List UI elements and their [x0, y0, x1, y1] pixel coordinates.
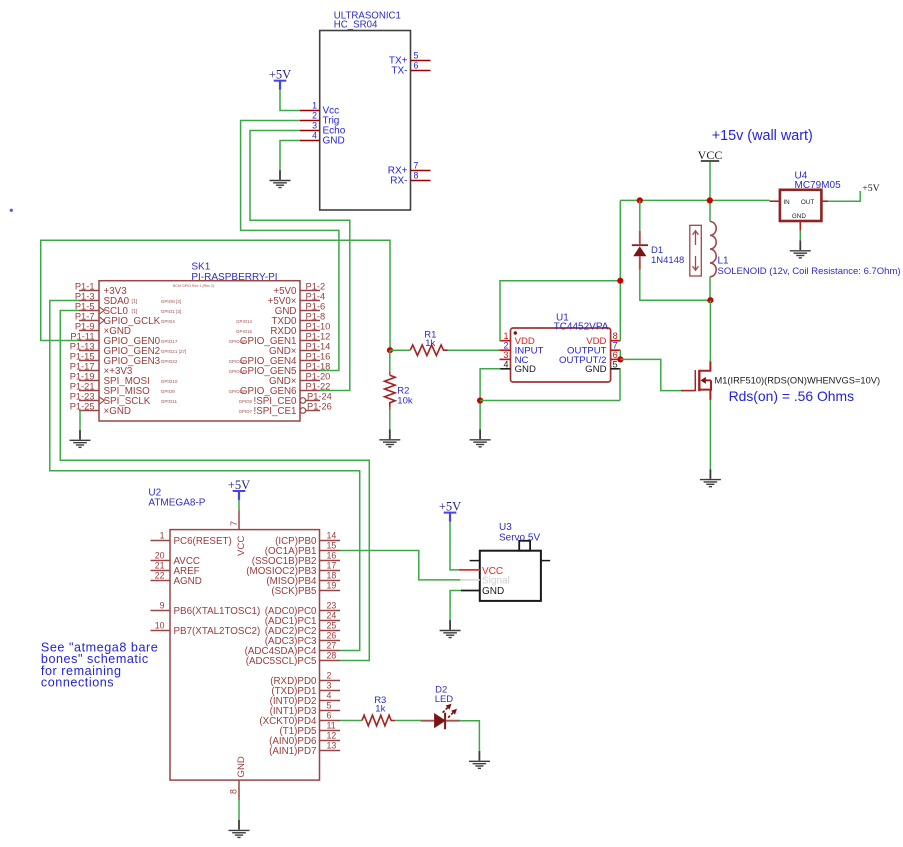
wire GND pin 4 down	[280, 141, 300, 171]
wire coil bottom to junction	[709, 277, 711, 301]
svg-text:P1-9: P1-9	[75, 321, 95, 331]
svg-text:U3: U3	[499, 522, 512, 533]
inductor L1 coil	[710, 222, 716, 277]
wire D1 anode to rail bottom	[640, 270, 711, 300]
U2 pin 15 (OC1A)PB1	[265, 541, 340, 557]
svg-text:GND: GND	[515, 364, 536, 375]
SK1 pin P1-13 GPIO_GEN2	[70, 341, 187, 357]
svg-text:5: 5	[327, 701, 332, 711]
svg-text:27: 27	[327, 641, 337, 651]
svg-text:GND: GND	[236, 756, 247, 777]
svg-text:ATMEGA8-P: ATMEGA8-P	[148, 498, 205, 509]
ground (U4)	[790, 240, 811, 257]
ground (servo)	[440, 620, 461, 637]
U2 pin 5 (INT1)PD3	[270, 701, 340, 717]
svg-text:1: 1	[503, 331, 508, 341]
svg-text:28: 28	[327, 651, 337, 661]
svg-text:P1-12: P1-12	[306, 331, 331, 341]
svg-text:8: 8	[229, 789, 239, 794]
microcontroller U2 ATMEGA8-P box	[170, 530, 320, 781]
svg-text:25: 25	[327, 621, 337, 631]
svg-text:1k: 1k	[425, 338, 435, 349]
SK1 pin P1-3 SDA0	[75, 291, 181, 307]
svg-text:(SCK)PB5: (SCK)PB5	[271, 586, 317, 597]
SK1 pin P1-6 GND	[275, 301, 325, 317]
svg-text:GPIO14: GPIO14	[236, 319, 252, 324]
U2 pin 24 (ADC1)PC1	[265, 611, 340, 627]
svg-text:GPIO8: GPIO8	[239, 399, 253, 404]
svg-text:8: 8	[414, 171, 419, 181]
svg-text:Rds(on) = .56 Ohms: Rds(on) = .56 Ohms	[729, 388, 855, 404]
servo pin Signal	[460, 579, 480, 581]
svg-text:P1-22: P1-22	[306, 381, 331, 391]
svg-text:23: 23	[327, 601, 337, 611]
U2 pin 20 AVCC	[151, 551, 201, 567]
svg-text:4: 4	[327, 691, 332, 701]
svg-text:6: 6	[414, 61, 419, 71]
SK1 pin P1-16 GPIO_GEN4	[229, 351, 331, 367]
+5V power symbol (servo)	[439, 499, 461, 521]
ULTRASONIC1 pin 3 Echo	[300, 130, 320, 132]
ULTRASONIC1 pin 8 RX-	[411, 180, 431, 182]
solenoid plunger arrow box	[690, 225, 702, 276]
svg-text:GPIO17: GPIO17	[161, 339, 178, 344]
ULTRASONIC1 pin 6 TX-	[411, 70, 431, 72]
svg-text:GPIO7: GPIO7	[239, 409, 253, 414]
svg-text:SOLENOID (12v, Coil Resistance: SOLENOID (12v, Coil Resistance: 6.7Ohm)	[718, 266, 901, 277]
svg-text:7: 7	[229, 521, 239, 526]
svg-text:6: 6	[327, 711, 332, 721]
wire Echo pin 3 to SK1 P1-22 GPIO_GEN6	[250, 131, 350, 391]
svg-text:9: 9	[160, 601, 165, 611]
junction rail bottom	[707, 297, 713, 303]
U2 pin 21 AREF	[151, 561, 200, 577]
svg-text:P1-14: P1-14	[306, 341, 331, 351]
servo right whisker	[541, 560, 550, 562]
SK1 pin P1-2 +5V0	[273, 281, 325, 297]
svg-text:17: 17	[327, 561, 337, 571]
svg-text:22: 22	[155, 571, 165, 581]
resistor R2 10k	[389, 350, 391, 371]
svg-text:GPIO1 [3]: GPIO1 [3]	[161, 309, 181, 314]
svg-text:1: 1	[312, 101, 317, 111]
svg-text:P1-8: P1-8	[306, 311, 326, 321]
svg-text:P1-18: P1-18	[306, 361, 331, 371]
svg-text:P1-16: P1-16	[306, 351, 331, 361]
U2 pin 16 (SSOC1B)PB2	[252, 551, 340, 567]
svg-text:26: 26	[327, 631, 337, 641]
wire GPIO_GEN0 P1-11 to R1/R2 node	[41, 240, 390, 350]
U2 pin 27 (ADC4SDA)PC4	[245, 641, 340, 657]
SK1 pin P1-1 +3V3	[75, 281, 127, 297]
svg-text:21: 21	[155, 561, 165, 571]
SK1 pin P1-5 SCL0	[75, 301, 181, 317]
wire rail to M1 drain	[709, 300, 711, 361]
svg-text:PB6(XTAL1TOSC1): PB6(XTAL1TOSC1)	[174, 606, 261, 617]
SK1 pin P1-7 GPIO_GCLK	[75, 311, 175, 327]
svg-text:RX-: RX-	[390, 176, 407, 187]
U4 pin OUT	[821, 200, 828, 202]
U1 pin 1 VDD (left)	[500, 340, 511, 342]
ULTRASONIC1 pin 1 Vcc	[300, 110, 320, 112]
svg-text:8: 8	[613, 331, 618, 341]
svg-text:GPIO25: GPIO25	[229, 389, 245, 394]
U1 pin 4 GND (left)	[500, 368, 511, 370]
svg-text:P1-24: P1-24	[307, 391, 332, 401]
U1 pin 5 GND (right)	[611, 368, 621, 370]
svg-text:TX-: TX-	[391, 66, 407, 77]
U2 pin 9 PB6(XTAL1TOSC1)	[151, 601, 261, 617]
junction OUTPUT pins	[617, 356, 623, 362]
U2 pin 23 (ADC0)PC0	[265, 601, 340, 617]
svg-text:1: 1	[160, 531, 165, 541]
svg-text:+15v (wall wart): +15v (wall wart)	[712, 128, 813, 144]
svg-text:11: 11	[327, 721, 336, 731]
svg-text:19: 19	[327, 581, 337, 591]
wire U1 VDD pins to +15V rail	[500, 200, 620, 340]
ULTRASONIC1 pin 7 RX+	[411, 170, 431, 172]
ground (R2)	[379, 429, 400, 446]
svg-text:13: 13	[327, 741, 337, 751]
down arrow	[693, 256, 699, 270]
wire VCC rail down to coil	[709, 162, 711, 222]
U2 pin 19 (SCK)PB5	[271, 581, 340, 597]
svg-text:GPIO11: GPIO11	[161, 399, 178, 404]
wire SDA0 P1-3 to ATMEGA PC4	[50, 301, 360, 651]
U2 pin 28 (ADC5SCL)PC5	[246, 651, 340, 667]
svg-text:GND: GND	[792, 213, 806, 220]
SK1 pin P1-8 TXD0	[236, 311, 325, 327]
svg-text:(AIN1)PD7: (AIN1)PD7	[269, 746, 316, 757]
wire U1 pin7 to pin6 jog	[619, 350, 621, 359]
SK1 pin P1-12 GPIO_GEN1	[229, 331, 331, 347]
ground rail wire to pin5	[480, 369, 620, 401]
driver IC U1 TC4452VPA box	[511, 328, 611, 382]
svg-text:TC4452VPA: TC4452VPA	[554, 322, 609, 333]
svg-text:GPIO9: GPIO9	[161, 389, 175, 394]
U1 pin 3 NC (left)	[500, 358, 511, 360]
wire PD4 to R3	[340, 720, 362, 722]
svg-text:GPIO15: GPIO15	[236, 329, 252, 334]
svg-text:1N4148: 1N4148	[651, 255, 684, 266]
U2 pin 7 VCC	[238, 500, 240, 511]
svg-text:4: 4	[503, 359, 508, 369]
SK1 pin P1-25 ×GND	[70, 401, 131, 417]
svg-text:GPIO8 [2]: GPIO8 [2]	[161, 299, 181, 304]
U2 pin 14 (ICP)PB0	[275, 531, 340, 547]
wire R1 to U1 INPUT	[390, 349, 500, 351]
svg-text:SK1: SK1	[191, 261, 210, 272]
svg-text:GPIO4: GPIO4	[161, 319, 175, 324]
svg-text:GPIO18: GPIO18	[229, 339, 245, 344]
U2 pin 17 (MOSIOC2)PB3	[246, 561, 340, 577]
svg-text:!SPI_CE1: !SPI_CE1	[253, 406, 296, 417]
svg-text:P1-13: P1-13	[70, 341, 95, 351]
svg-text:P1-2: P1-2	[306, 281, 326, 291]
svg-text:20: 20	[155, 551, 165, 561]
up arrow	[693, 231, 699, 245]
svg-text:GND: GND	[482, 586, 504, 597]
wire U1 pin4 GND to ground rail	[480, 369, 500, 430]
wire top rail to U4 IN	[620, 199, 769, 201]
ground (U1)	[470, 429, 491, 446]
svg-text:GPIO24: GPIO24	[229, 369, 245, 374]
wire R3 to D2	[395, 720, 421, 722]
svg-text:Servo 5V: Servo 5V	[499, 532, 540, 543]
svg-text:P1-4: P1-4	[306, 291, 326, 301]
svg-text:P1-15: P1-15	[70, 351, 95, 361]
svg-text:P1-1: P1-1	[75, 281, 95, 291]
servo pin VCC	[459, 569, 480, 571]
svg-text:5: 5	[613, 359, 618, 369]
svg-text:10: 10	[155, 621, 165, 631]
ULTRASONIC1 pin 5 TX+	[411, 60, 431, 62]
SK1 pin P1-4 +5V0×	[268, 291, 326, 307]
U2 pin 2 (RXD)PD0	[270, 671, 340, 687]
svg-text:(ADC5SCL)PC5: (ADC5SCL)PC5	[246, 656, 317, 667]
ground (SK1)	[70, 430, 91, 447]
servo mount tab	[519, 541, 530, 551]
svg-text:HC_SR04: HC_SR04	[334, 20, 378, 31]
U1 pin-1 marker dot	[514, 331, 517, 334]
svg-text:+5V: +5V	[439, 499, 461, 513]
svg-text:2: 2	[327, 671, 332, 681]
U2 pin 3 (TXD)PD1	[271, 681, 340, 697]
svg-text:GPIO22: GPIO22	[161, 359, 178, 364]
U1 pin 2 INPUT (left)	[500, 349, 511, 351]
svg-text:12: 12	[327, 731, 337, 741]
ULTRASONIC1 pin 4 GND	[300, 140, 320, 142]
SK1 pin P1-21 SPI_MISO	[70, 381, 176, 397]
svg-text:OUT: OUT	[801, 199, 814, 206]
svg-text:10k: 10k	[397, 396, 413, 407]
U1 pin 8 VDD (right)	[611, 340, 621, 342]
resistor R3 1k	[362, 715, 395, 726]
svg-text:BCM GPIO Rev 1 (Rev 2): BCM GPIO Rev 1 (Rev 2)	[173, 284, 214, 288]
SK1 pin P1-11 GPIO_GEN0	[70, 331, 177, 347]
svg-text:+5V: +5V	[269, 68, 291, 82]
ULTRASONIC1 pin 2 Trig	[300, 120, 320, 122]
svg-text:PI-RASPBERRY-PI: PI-RASPBERRY-PI	[191, 272, 277, 283]
raspberry-pi header SK1 box	[99, 281, 300, 421]
wire SK1 P1-25 GND down	[79, 411, 81, 430]
svg-text:P1-19: P1-19	[70, 371, 95, 381]
ground (ultrasonic GND)	[270, 170, 291, 187]
svg-text:AGND: AGND	[174, 576, 202, 587]
wire U4 GND down	[799, 231, 801, 241]
SK1 pin P1-14 GND×	[269, 341, 330, 357]
svg-text:3: 3	[312, 121, 317, 131]
svg-text:LED: LED	[435, 694, 454, 705]
svg-text:2: 2	[312, 111, 317, 121]
svg-text:P1-17: P1-17	[70, 361, 95, 371]
wire U1 OUTPUT to M1 gate	[620, 359, 681, 390]
wire M1 source to ground	[709, 400, 711, 469]
junction D1 top	[637, 197, 643, 203]
LED emission arrows	[441, 702, 454, 715]
svg-text:P1-21: P1-21	[70, 381, 95, 391]
junction VCC rail	[707, 197, 713, 203]
wire U4 OUT to +5V	[828, 191, 860, 201]
svg-text:18: 18	[327, 571, 337, 581]
SK1 pin P1-22 GPIO_GEN6	[229, 381, 331, 397]
wire SCL0 P1-5 to ATMEGA PC5	[60, 311, 369, 661]
svg-text:+5V: +5V	[228, 478, 250, 492]
U2 pin 25 (ADC2)PC2	[265, 621, 340, 637]
svg-text:MC79M05: MC79M05	[795, 180, 842, 191]
svg-text:P1-23: P1-23	[70, 391, 95, 401]
SK1 pin P1-23 SPI_SCLK	[70, 391, 178, 407]
svg-text:24: 24	[327, 611, 337, 621]
svg-text:+5V: +5V	[862, 183, 880, 194]
svg-text:14: 14	[327, 531, 337, 541]
wire R2 to ground	[389, 411, 391, 430]
svg-text:16: 16	[327, 551, 337, 561]
svg-text:M1(IRF510)(RDS(ON)WHENVGS=10V): M1(IRF510)(RDS(ON)WHENVGS=10V)	[715, 375, 881, 385]
SK1 pin P1-10 RXD0	[236, 321, 330, 337]
svg-text:[1]: [1]	[132, 309, 138, 315]
SK1 pin P1-20 GND×	[269, 371, 330, 387]
svg-text:5: 5	[414, 51, 419, 61]
U2 pin 18 (MISO)PB4	[266, 571, 340, 587]
U2 pin 6 (XCKT0)PD4	[259, 711, 340, 727]
junction node R1/R2/GEN0	[387, 347, 393, 353]
svg-text:15: 15	[327, 541, 337, 551]
U2 pin 4 (INT0)PD2	[270, 691, 340, 707]
wire PB1 to servo Signal	[340, 551, 460, 580]
svg-text:GND: GND	[585, 364, 606, 375]
junction GND rail	[477, 397, 483, 403]
svg-text:VCC: VCC	[236, 536, 247, 556]
U2 pin 1 PC6(RESET)	[151, 531, 232, 547]
VCC power symbol	[698, 148, 723, 162]
svg-text:P1-25: P1-25	[70, 401, 95, 411]
ultrasonic module ULTRASONIC1 HC_SR04 box	[320, 31, 411, 211]
svg-text:4: 4	[312, 131, 317, 141]
transistor M1 IRF510	[695, 361, 711, 400]
M1 gate lead	[681, 390, 695, 392]
wire +5V to Vcc pin 1	[280, 89, 300, 110]
svg-text:IN: IN	[783, 199, 790, 206]
SK1 pin P1-18 GPIO_GEN5	[229, 361, 331, 377]
svg-text:connections: connections	[41, 676, 114, 690]
+5V power symbol (U2 VCC)	[228, 478, 250, 500]
servo U3 box	[480, 551, 541, 601]
svg-text:P1-26: P1-26	[307, 401, 332, 411]
svg-text:7: 7	[414, 161, 419, 171]
svg-text:GPIO10: GPIO10	[161, 379, 178, 384]
ground (D2)	[469, 751, 490, 768]
servo pin GND	[461, 590, 480, 592]
LED D2	[421, 720, 434, 722]
wire D2 to ground	[460, 721, 479, 751]
U2 pin 11 (T1)PD5	[279, 721, 340, 737]
servo left whisker	[470, 560, 480, 562]
SK1 pin P1-15 GPIO_GEN3	[70, 351, 178, 367]
svg-text:GPIO21 [27]: GPIO21 [27]	[161, 349, 187, 354]
U2 pin 13 (AIN1)PD7	[269, 741, 340, 757]
U2 pin 22 AGND	[151, 571, 202, 587]
U2 pin 12 (AIN0)PD6	[269, 731, 340, 747]
diode D1 1N4148	[639, 200, 641, 230]
wire +5V to servo VCC	[450, 521, 459, 570]
U2 pin 26 (ADC3)PC3	[265, 631, 340, 647]
svg-text:GPIO23: GPIO23	[229, 359, 245, 364]
regulator U4 MC79M05 box	[780, 190, 822, 221]
U2 pin 8 GND	[238, 780, 240, 800]
SK1 pin P1-26 !SPI_CE1	[239, 401, 332, 417]
U1 pin 7 OUTPUT (right)	[611, 349, 621, 351]
svg-text:P1-10: P1-10	[306, 321, 331, 331]
svg-text:[1]: [1]	[132, 299, 138, 305]
svg-text:1k: 1k	[375, 704, 385, 715]
junction VDD branch	[617, 278, 623, 284]
U4 pin IN	[770, 200, 780, 202]
U1 pin 6 OUTPUT/2 (right)	[611, 358, 621, 360]
wire servo GND to ground	[450, 591, 461, 621]
svg-text:GND: GND	[323, 136, 345, 147]
+5V power symbol (ultrasonic Vcc)	[269, 68, 291, 90]
svg-text:PC6(RESET): PC6(RESET)	[174, 536, 232, 547]
svg-text:3: 3	[327, 681, 332, 691]
svg-text:P1-20: P1-20	[306, 371, 331, 381]
SK1 pin P1-17 ×+3V3	[70, 361, 133, 377]
SK1 pin P1-19 SPI_MOSI	[70, 371, 178, 387]
ground (M1)	[700, 469, 721, 486]
ground (U2)	[229, 820, 250, 837]
svg-text:P1-6: P1-6	[306, 301, 326, 311]
svg-text:VCC: VCC	[698, 148, 723, 162]
stray blue dot	[10, 209, 13, 212]
U2 pin 10 PB7(XTAL2TOSC2)	[151, 621, 261, 637]
SK1 pin P1-24 !SPI_CE0	[239, 391, 332, 407]
resistor R1 1k	[410, 345, 447, 356]
wire Trig pin 2 to SK1 P1-18 GPIO_GEN5	[241, 121, 339, 371]
svg-text:PB7(XTAL2TOSC2): PB7(XTAL2TOSC2)	[174, 626, 261, 637]
svg-text:P1-7: P1-7	[75, 311, 95, 321]
svg-text:×GND: ×GND	[104, 406, 132, 417]
SK1 pin P1-9 ×GND	[75, 321, 131, 337]
